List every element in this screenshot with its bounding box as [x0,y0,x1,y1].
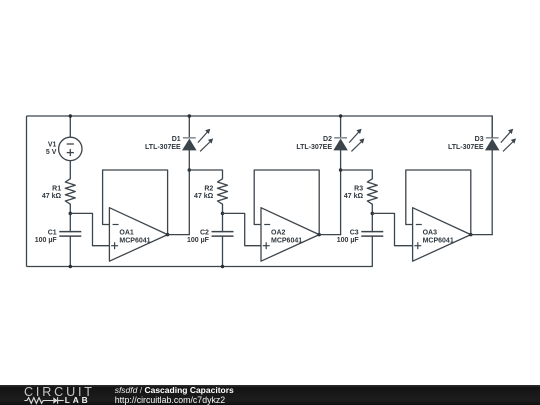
wire: OA2 feedback loop [254,170,319,235]
capacitor C1 [59,232,81,237]
svg-text:LTL-307EE: LTL-307EE [145,144,181,151]
svg-text:C3: C3 [350,229,359,236]
wire: node to OA1 + input [70,213,109,245]
junction: R1/C1 node [69,212,73,216]
wire: left rail [26,116,28,267]
svg-text:R1: R1 [52,185,61,192]
label C2 / 100 &#181;F [187,229,210,244]
label C1 / 100 &#181;F [35,229,58,244]
op-amp OA3 minus input mark [416,224,422,226]
junction: D2 anode branch [339,168,343,172]
resistor R3 [367,179,377,204]
junction: bottom rail / C1 [69,265,73,269]
label V1 / 5 V [46,142,57,156]
wire: OA3 feedback loop [406,170,471,235]
junction: top rail / D2 [339,114,343,118]
label OA1 / MCP6041 [119,230,150,245]
op-amp OA2 minus input mark [264,224,270,226]
CircuitLab logo: resistor-diode symbol and LAB [0,395,100,405]
footer url text [115,396,226,405]
svg-text:47 kΩ: 47 kΩ [344,193,364,200]
svg-text:OA1: OA1 [119,230,133,237]
svg-text:5 V: 5 V [46,149,57,156]
svg-text:LTL-307EE: LTL-307EE [296,144,332,151]
label OA3 / MCP6041 [423,230,454,245]
wire: C1 to bottom rail [69,236,71,266]
junction: OA1 output [166,233,170,237]
wire: R2 to C2 [222,204,224,231]
CircuitLab logo: CIRCUIT text [24,386,95,399]
wire: top rail to D2 [340,116,342,137]
junction: D1 anode branch [188,168,192,172]
svg-text:MCP6041: MCP6041 [119,237,150,244]
capacitor C2 [212,232,234,237]
svg-text:MCP6041: MCP6041 [423,237,454,244]
wire: OA2 output to D2 [319,234,340,236]
junction: top rail / D1 [188,114,192,118]
wire: D1 to output node [188,150,190,235]
op-amp OA3 triangle [413,208,471,262]
junction: OA2 output [317,233,321,237]
svg-text:D2: D2 [323,136,332,143]
svg-text:D3: D3 [475,136,484,143]
svg-text:47 kΩ: 47 kΩ [194,193,214,200]
label R2 / 47 k&#937; [194,185,214,200]
wire: OA1 feedback loop [103,170,168,235]
svg-text:LAB: LAB [65,395,91,405]
label D3 / LTL-307EE [448,136,484,151]
wire: node to OA3 + input [372,213,412,245]
op-amp OA2 plus input mark [263,242,270,249]
label R3 / 47 k&#937; [344,185,364,200]
wire: D1 node to R2 [189,170,222,179]
LED D2 [334,129,364,152]
svg-text:LTL-307EE: LTL-307EE [448,144,484,151]
wire: R1 to C1 [69,204,71,231]
svg-text:C2: C2 [200,229,209,236]
wire: OA1 output to D1 [168,234,190,236]
svg-text:100 µF: 100 µF [337,237,360,244]
wire: D2 to output node [340,150,342,235]
voltage source V1 [59,137,82,160]
resistor R1 [65,179,75,204]
junction: R3/C3 node [371,212,375,216]
label C3 / 100 &#181;F [337,229,360,244]
LED D3 [486,129,516,152]
svg-text:R2: R2 [204,185,213,192]
junction: bottom rail / C2 [221,265,225,269]
junction: OA3 output [469,233,473,237]
wire: OA3 output to D3 [471,234,492,236]
op-amp OA3 plus input mark [414,242,421,249]
svg-text:OA2: OA2 [271,230,286,237]
svg-text:100 µF: 100 µF [187,237,210,244]
svg-text:V1: V1 [48,142,57,149]
svg-text:R3: R3 [354,185,363,192]
svg-text:MCP6041: MCP6041 [271,237,302,244]
wire: node to OA2 + input [223,213,262,245]
label OA2 / MCP6041 [271,230,302,245]
wire: top rail to D1 [188,116,190,137]
junction: R2/C2 node [221,212,225,216]
wire: C3 to bottom rail [371,236,373,266]
svg-text:47 kΩ: 47 kΩ [42,193,62,200]
wire: V1 to R1 [69,161,71,179]
wire: C2 to bottom rail [222,236,224,266]
resistor R2 [218,179,228,204]
wire: D3 to output node [491,150,493,235]
wire: R3 to C3 [371,204,373,231]
op-amp OA1 minus input mark [113,224,119,226]
footer title text [115,386,234,395]
wire: bottom ground rail [27,266,373,268]
svg-text:100 µF: 100 µF [35,237,58,244]
wire: D3 column from top rail corner [491,116,493,137]
op-amp OA1 plus input mark [111,242,118,249]
wire: D2 node to R3 [341,170,373,179]
op-amp OA2 triangle [261,208,319,262]
junction: top rail / V1 [69,114,73,118]
label D1 / LTL-307EE [145,136,181,151]
wire: top power rail [27,115,493,117]
op-amp OA1 triangle [109,208,167,262]
capacitor C3 [361,232,383,237]
svg-text:OA3: OA3 [423,230,438,237]
svg-text:C1: C1 [48,229,57,236]
wire: top rail to D3 [491,116,493,137]
label R1 / 47 k&#937; [42,185,62,200]
LED D1 [183,129,213,152]
svg-text:D1: D1 [172,136,181,143]
label D2 / LTL-307EE [296,136,332,151]
wire: top rail to V1 top [69,116,71,137]
